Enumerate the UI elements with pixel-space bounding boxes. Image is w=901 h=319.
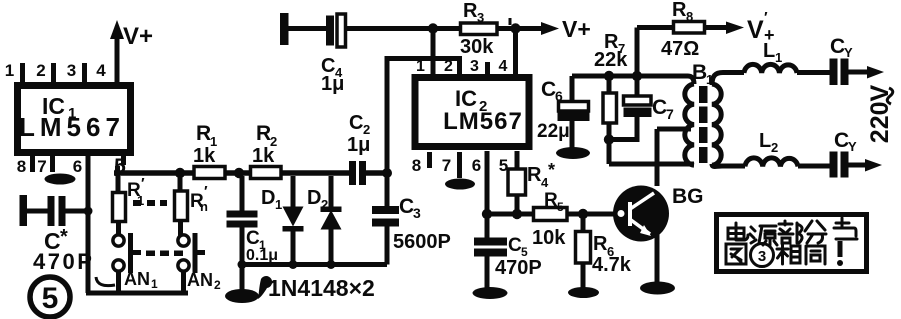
- svg-text:C: C: [508, 235, 522, 256]
- ground under R6: [568, 287, 599, 298]
- ground under C5: [473, 287, 508, 299]
- label C7: [652, 96, 674, 122]
- note text hanzi: dian (power): [728, 223, 748, 240]
- label 1u (C4): [321, 73, 344, 95]
- dashed link R'1 to R'n: [133, 200, 167, 206]
- label R7: [604, 31, 625, 56]
- label R5: [544, 190, 564, 214]
- svg-text:2: 2: [214, 278, 221, 292]
- label 22k: [594, 49, 628, 71]
- resistor R2 1k: [251, 167, 282, 179]
- wire hop hook near AN1: [96, 277, 115, 286]
- svg-text:R: R: [256, 122, 271, 145]
- svg-text:6: 6: [73, 157, 82, 176]
- diode D1: [283, 176, 304, 265]
- ground under C6: [556, 147, 590, 159]
- svg-text:BG: BG: [672, 185, 704, 208]
- IC2 bottom pin ticks: [430, 152, 460, 178]
- svg-text:220V: 220V: [866, 84, 894, 143]
- svg-text:B: B: [692, 61, 707, 84]
- transformer B1 secondary winding: [712, 84, 721, 165]
- IC2 top pin numbers 1 2 3 4: [416, 58, 508, 75]
- capacitor CY top: [830, 59, 869, 86]
- svg-text:22μ: 22μ: [537, 121, 570, 142]
- label R3: [463, 0, 484, 25]
- svg-text:C: C: [652, 96, 667, 119]
- svg-text:5: 5: [42, 282, 59, 315]
- main timing rail from pin 5: [114, 170, 388, 176]
- svg-text:47Ω: 47Ω: [661, 38, 699, 60]
- IC U1: IC1 LM567 box: [18, 86, 131, 153]
- svg-text:1k: 1k: [252, 145, 275, 167]
- resistor R'1: [113, 176, 126, 246]
- svg-text:C: C: [246, 228, 260, 249]
- label 1N4148x2: [268, 275, 375, 301]
- arrow V+ (right of R3): [541, 22, 559, 35]
- push button AN1: [113, 233, 141, 291]
- label 1u (C2): [347, 134, 370, 156]
- label V+ (IC1 supply): [123, 23, 153, 50]
- label 47ohm: [661, 38, 699, 60]
- inductor L2: [745, 158, 798, 167]
- resistor R'n: [175, 176, 188, 236]
- ground under IC1 pin 7: [45, 174, 76, 185]
- svg-text:1: 1: [775, 50, 782, 65]
- transistor BG: [613, 186, 669, 242]
- svg-text:′: ′: [141, 175, 145, 192]
- svg-text:2: 2: [444, 58, 453, 75]
- capacitor C7: [611, 76, 652, 140]
- node R'n top: [175, 168, 185, 178]
- svg-text:470P: 470P: [495, 257, 542, 279]
- svg-text:6: 6: [555, 88, 563, 104]
- resistor R8 47ohm: [637, 22, 727, 34]
- svg-text:7: 7: [666, 106, 674, 122]
- svg-text:1N4148×2: 1N4148×2: [268, 275, 375, 301]
- note text hanzi: fen (divide): [805, 221, 826, 243]
- wire junction up to IC2 pin 2 tick: [387, 59, 460, 174]
- svg-text:30k: 30k: [460, 36, 494, 58]
- label 0.1u: [246, 247, 278, 264]
- svg-text:1μ: 1μ: [321, 73, 344, 95]
- svg-text:3: 3: [413, 205, 421, 221]
- label 1k (R2): [252, 145, 275, 167]
- svg-text:0.1μ: 0.1μ: [246, 247, 278, 264]
- arrow output bottom: [865, 159, 882, 172]
- svg-text:1: 1: [275, 197, 282, 212]
- svg-text:7: 7: [37, 157, 46, 176]
- svg-text:1: 1: [5, 61, 14, 80]
- label R'1: [127, 175, 145, 208]
- svg-text:*: *: [60, 226, 68, 248]
- svg-text:′: ′: [204, 183, 208, 200]
- note text hanzi: tong (same): [806, 246, 825, 264]
- supply rail to transformer B1: [572, 71, 694, 84]
- svg-text:470P: 470P: [33, 249, 94, 274]
- IC1 bottom pin numbers 8 7 6 5: [17, 155, 126, 178]
- svg-text:1μ: 1μ: [347, 134, 370, 156]
- label R4*: [527, 160, 555, 190]
- ground under BG emitter: [640, 282, 675, 295]
- label 10k: [532, 227, 566, 249]
- svg-text:LM567: LM567: [443, 108, 523, 135]
- wire secondary bottom to L2: [712, 164, 745, 167]
- svg-text:D: D: [261, 187, 275, 209]
- label CY top: [830, 35, 853, 60]
- resistor R3 30k: [461, 23, 498, 35]
- resistor R7 22k: [603, 76, 617, 164]
- svg-text:AN: AN: [124, 269, 150, 289]
- label 470P: [33, 249, 94, 274]
- transformer B1 core: [699, 86, 708, 163]
- svg-text:2: 2: [36, 61, 45, 80]
- wire C4 to R3 to V+: [428, 23, 542, 33]
- svg-text:R: R: [544, 190, 558, 211]
- note text hanzi: xiang (same/mutual): [777, 244, 800, 264]
- wire R3 left junction down to IC2 pin1/2: [431, 29, 436, 75]
- svg-text:3: 3: [477, 10, 484, 25]
- svg-text:D: D: [307, 187, 321, 209]
- node C1 top: [234, 168, 244, 178]
- svg-text:R: R: [463, 0, 478, 22]
- ground under C1: [225, 289, 259, 303]
- svg-text:V+: V+: [123, 23, 153, 50]
- push button AN2: [178, 233, 205, 291]
- arrow V+': [726, 22, 744, 35]
- node C2/C3/IC2 junction: [382, 168, 392, 178]
- capacitor C1 0.1u: [227, 176, 258, 290]
- svg-text:Y: Y: [848, 139, 857, 154]
- svg-text:10k: 10k: [532, 227, 566, 249]
- svg-text:R: R: [593, 233, 608, 255]
- svg-text:R: R: [527, 164, 542, 186]
- label C*: [44, 226, 68, 254]
- label C2: [349, 112, 370, 137]
- transformer B1 primary winding: [685, 84, 694, 165]
- label 220V~: [866, 84, 894, 143]
- ground under IC2 pin 7: [445, 179, 475, 190]
- capacitor C3 5600P: [372, 173, 399, 265]
- diode D2: [321, 176, 342, 265]
- circled figure number 5: [30, 277, 70, 317]
- label 470P (C5): [495, 257, 542, 279]
- svg-text:3: 3: [758, 248, 766, 265]
- node C* junction on pin6 wire: [84, 207, 93, 216]
- IC U2: IC2 LM567 box: [415, 78, 529, 147]
- IC1 top pin ticks: [23, 63, 85, 82]
- svg-text:1: 1: [416, 58, 425, 75]
- label 1k (R1): [193, 145, 216, 167]
- svg-text:C: C: [830, 35, 845, 58]
- svg-text:4.7k: 4.7k: [592, 254, 632, 276]
- label D1: [261, 187, 282, 212]
- svg-text:′: ′: [764, 9, 768, 26]
- label V+ (IC2 supply): [562, 16, 591, 42]
- label C1: [246, 228, 266, 252]
- capacitor C6 22u: [558, 76, 590, 148]
- svg-text:C: C: [349, 112, 363, 134]
- capacitor CY bottom: [830, 152, 867, 178]
- label R6: [593, 233, 614, 259]
- label 4.7k: [592, 254, 632, 276]
- wire R3 right junction down to IC2 pin 4: [510, 18, 516, 74]
- svg-text:R: R: [196, 122, 211, 145]
- label L2: [759, 130, 778, 155]
- capacitor C4 1u input: [280, 13, 433, 47]
- resistor R1 1k: [194, 167, 225, 179]
- svg-text:1: 1: [151, 277, 158, 291]
- wire IC1 pin 6 down and keypad bottom rail: [86, 155, 188, 293]
- wire V+ supply to IC1 pin 4: [110, 20, 124, 82]
- label 30k: [460, 36, 494, 58]
- resistor R6 4.7k: [576, 214, 591, 288]
- note text hanzi: tu (figure): [726, 244, 746, 264]
- svg-text:V: V: [747, 16, 764, 44]
- svg-text:8: 8: [686, 9, 693, 24]
- IC2 top pin tick: [485, 62, 490, 75]
- svg-text:4: 4: [96, 61, 106, 80]
- svg-text:5600P: 5600P: [393, 231, 451, 253]
- svg-text:6: 6: [472, 156, 481, 175]
- capacitor C2 1u: [349, 161, 366, 185]
- wire L2 to CY bottom: [798, 164, 830, 169]
- label 5600P: [393, 231, 451, 253]
- svg-text:1k: 1k: [193, 145, 216, 167]
- label V+': [747, 9, 775, 45]
- svg-text:4: 4: [499, 58, 508, 75]
- wire node to R5 to BG base: [487, 209, 614, 219]
- svg-text:L: L: [759, 130, 771, 152]
- label 22u: [537, 121, 570, 142]
- svg-text:C: C: [399, 195, 414, 218]
- wire BG emitter to ground: [655, 234, 660, 282]
- svg-text:2: 2: [771, 140, 778, 155]
- svg-text:Y: Y: [844, 45, 853, 60]
- svg-text:8: 8: [17, 157, 26, 176]
- note text hanzi: yu (with): [834, 218, 857, 239]
- svg-text:LM567: LM567: [19, 112, 125, 142]
- svg-text:*: *: [548, 160, 555, 180]
- label R2: [256, 122, 277, 149]
- wire IC1 pin 5 stub: [115, 166, 120, 176]
- wire L1 to CY top: [797, 70, 830, 75]
- label C5: [508, 235, 528, 259]
- IC1 bottom pin ticks: [33, 155, 124, 172]
- label B1: [692, 61, 713, 87]
- label R8: [672, 0, 693, 24]
- note text hanzi: bu (part): [779, 221, 802, 243]
- svg-text:C: C: [834, 129, 849, 152]
- svg-text:3: 3: [67, 61, 76, 80]
- svg-text:C: C: [541, 78, 556, 101]
- IC1 top pin numbers 1 2 3 4: [5, 61, 107, 80]
- wire IC2 pin 6 down to C5: [482, 151, 492, 240]
- svg-text:7: 7: [442, 156, 451, 175]
- label AN2: [187, 270, 221, 292]
- capacitor C5 470P: [474, 238, 507, 289]
- arrow output top: [867, 66, 884, 79]
- svg-text:3: 3: [470, 58, 479, 75]
- bottom rail C1-D1-D2-C3: [238, 260, 388, 269]
- svg-text:L: L: [763, 40, 775, 62]
- svg-text:n: n: [200, 199, 208, 214]
- svg-text:5: 5: [557, 200, 564, 214]
- label C4: [321, 55, 343, 80]
- note text hanzi: yuan (source): [750, 226, 777, 245]
- label R1: [196, 122, 217, 149]
- svg-text:R: R: [672, 0, 687, 21]
- wire rail up to R8: [635, 28, 640, 77]
- svg-text:V+: V+: [562, 16, 591, 42]
- wire secondary top to L1: [712, 73, 744, 86]
- capacitor C* 470P: [20, 195, 87, 226]
- svg-text:2: 2: [321, 197, 328, 212]
- svg-text:AN: AN: [187, 270, 213, 290]
- label L1: [763, 40, 782, 65]
- note text exclamation mark: [837, 241, 843, 266]
- label BG: [672, 185, 704, 208]
- pointer comma to diodes: [258, 276, 272, 299]
- svg-text:8: 8: [412, 156, 421, 175]
- dashed mechanical link AN1-AN2: [146, 251, 183, 257]
- label R'n: [190, 183, 208, 214]
- note box border: [717, 215, 867, 272]
- label AN1: [124, 269, 158, 291]
- label C3: [399, 195, 421, 221]
- label C6: [541, 78, 563, 104]
- label D2: [307, 187, 328, 212]
- IC2 bottom pin numbers 8 7 6 5: [412, 156, 508, 175]
- inductor L1: [744, 64, 797, 73]
- note text circled 3: [751, 244, 774, 267]
- resistor R5 10k: [534, 208, 568, 221]
- label CY bottom: [834, 129, 857, 154]
- wire collector node web: [609, 129, 694, 186]
- resistor R4*: [508, 151, 526, 219]
- svg-text:22k: 22k: [594, 49, 628, 71]
